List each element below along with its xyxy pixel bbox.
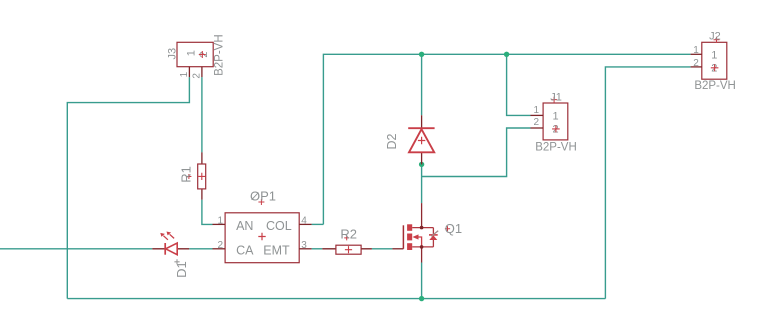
J2 body xyxy=(702,42,727,79)
J2 pin 2 stub xyxy=(691,66,702,68)
connector J2 xyxy=(691,31,736,93)
connector J3 xyxy=(166,34,225,78)
svg-text:1: 1 xyxy=(185,50,197,56)
R2 origin cross xyxy=(345,246,352,253)
wire left edge to D1 anode xyxy=(0,248,152,250)
svg-text:3: 3 xyxy=(301,240,307,251)
svg-text:J1: J1 xyxy=(550,92,562,104)
D1 pin stubs xyxy=(152,248,189,250)
R2 pin stubs xyxy=(322,248,372,250)
svg-text:2: 2 xyxy=(693,58,699,69)
svg-text:2: 2 xyxy=(192,73,203,79)
OP1 refdes cross xyxy=(258,199,264,205)
wire OP1 pin4 to riser xyxy=(312,223,324,225)
junction bottom rail / Q1 source xyxy=(419,296,424,301)
wire Q1 source to bottom rail xyxy=(421,263,423,299)
J2 refdes cross xyxy=(714,37,720,43)
junctions xyxy=(419,52,509,302)
wire OP1 pin3 to R2 xyxy=(312,248,323,250)
Q1 body diode triangle xyxy=(429,235,437,240)
wire J3 pin2 to R1 xyxy=(201,77,203,152)
R2 body xyxy=(336,245,361,254)
Q1 channel segment body xyxy=(407,234,412,241)
resistor R1 xyxy=(179,152,206,199)
OP1 pin 4 stub xyxy=(299,223,311,225)
svg-text:1: 1 xyxy=(711,50,717,62)
D2 pin stubs xyxy=(421,115,423,164)
J1 origin cross xyxy=(552,125,560,132)
Q1 body diode leads xyxy=(432,228,434,247)
svg-text:R2: R2 xyxy=(340,227,357,242)
svg-text:J3: J3 xyxy=(166,48,178,60)
wire R1 to OP1 pin1 xyxy=(202,200,213,225)
diode D2 xyxy=(385,115,435,164)
svg-text:EMT: EMT xyxy=(263,244,290,258)
Q1 source connection xyxy=(412,246,433,248)
R2 refdes cross xyxy=(344,235,349,240)
svg-text:1: 1 xyxy=(552,111,558,123)
J3 pin 2 stub xyxy=(201,67,203,77)
OP1 refdes O slash xyxy=(252,193,259,200)
svg-text:CA: CA xyxy=(236,244,254,258)
svg-text:Q1: Q1 xyxy=(445,221,462,236)
J2 pin 1 stub xyxy=(691,53,702,55)
Q1 drain connection xyxy=(412,227,433,229)
svg-text:R1: R1 xyxy=(179,166,194,183)
OP1 origin cross xyxy=(258,233,265,240)
D1 light arrow 2 xyxy=(170,234,175,238)
Q1 gate bar xyxy=(402,225,404,249)
Q1 refdes cross xyxy=(445,226,450,231)
Q1 body diode cathode bar xyxy=(429,234,438,236)
D2 cathode bar xyxy=(408,127,434,129)
OP1 pin 1 stub xyxy=(213,223,226,225)
J1 body xyxy=(543,103,568,140)
wire D2 top branch xyxy=(421,54,423,115)
svg-text:1: 1 xyxy=(217,215,223,226)
wire top rail net N$1 xyxy=(323,54,690,224)
Q1 source junction dot xyxy=(420,245,424,249)
J1 pin 1 stub xyxy=(531,114,544,116)
J1 pin 2 stub xyxy=(531,127,544,129)
OP1 pin 3 stub xyxy=(299,248,311,250)
LED D1 xyxy=(152,232,189,278)
svg-text:1: 1 xyxy=(534,105,540,116)
J2 origin cross xyxy=(711,64,719,71)
Q1 channel segment drain xyxy=(407,224,412,231)
svg-text:1: 1 xyxy=(179,71,190,77)
svg-text:2: 2 xyxy=(534,117,540,128)
Q1 body diode tick xyxy=(431,231,438,237)
D2 origin cross xyxy=(418,137,425,144)
R1 pin stubs xyxy=(201,152,203,199)
D2 triangle xyxy=(409,129,434,152)
wire R2 to Q1 gate xyxy=(372,248,393,250)
D1 light arrow 1 xyxy=(163,236,168,240)
J3 pin 1 stub xyxy=(188,67,190,77)
Q1 backgate arrow line xyxy=(415,237,422,247)
wire J2 pin2 to right rail xyxy=(605,67,690,299)
Q1 drain junction dot xyxy=(420,226,424,230)
OP1 pin 2 stub xyxy=(213,248,226,250)
svg-text:1: 1 xyxy=(693,45,699,56)
D1 refdes cross xyxy=(174,259,179,264)
R1 body xyxy=(198,164,206,189)
svg-text:B2P-VH: B2P-VH xyxy=(535,141,577,153)
optocoupler OP1 xyxy=(213,189,312,263)
D1 cathode bar xyxy=(164,243,166,255)
svg-text:2: 2 xyxy=(217,240,223,251)
resistor R2 xyxy=(322,227,372,255)
wire bottom rail GND xyxy=(67,298,605,300)
D1 triangle xyxy=(166,243,178,255)
svg-text:D1: D1 xyxy=(174,261,189,278)
J3 origin cross xyxy=(199,51,206,58)
R1 origin cross xyxy=(198,173,205,180)
svg-text:COL: COL xyxy=(266,219,292,233)
Q1 backgate arrowhead xyxy=(412,234,418,239)
R1 refdes cross xyxy=(186,174,191,179)
svg-text:AN: AN xyxy=(236,219,253,233)
svg-text:4: 4 xyxy=(301,215,307,226)
J3 body xyxy=(177,42,213,66)
wire D2 bottom to Q1 drain xyxy=(421,164,423,203)
svg-text:OP1: OP1 xyxy=(250,189,276,204)
OP1 body xyxy=(225,213,299,263)
wire left rail xyxy=(67,77,189,299)
Q1 channel segment source xyxy=(407,243,412,250)
svg-text:B2P-VH: B2P-VH xyxy=(214,34,226,76)
junction top rail / D2 xyxy=(419,52,424,57)
connector J1 xyxy=(531,92,577,154)
J1 refdes cross xyxy=(551,97,557,103)
transistor Q1 xyxy=(392,203,462,262)
wire J1 pin1 branch xyxy=(507,54,531,115)
wire D1 to OP1 pin2 xyxy=(189,248,212,250)
svg-text:B2P-VH: B2P-VH xyxy=(694,80,736,92)
wire J1 pin2 branch xyxy=(422,128,531,177)
Q1 gate lead xyxy=(392,248,403,250)
junction top rail / J1 pin1 xyxy=(504,52,509,57)
junction D2 anode node xyxy=(419,162,424,167)
svg-text:D2: D2 xyxy=(385,133,399,149)
svg-text:J2: J2 xyxy=(709,31,721,43)
